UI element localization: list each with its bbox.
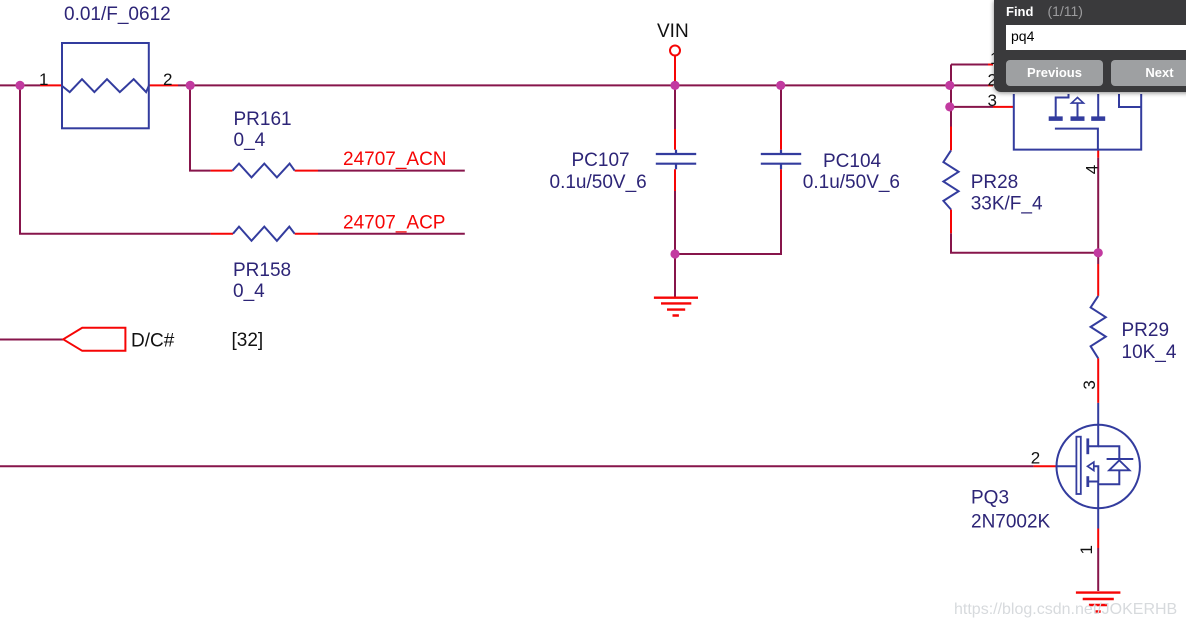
- svg-text:0_4: 0_4: [234, 130, 266, 151]
- resistor PR28: [943, 150, 958, 209]
- wire D/C# stub: [0, 339, 63, 341]
- wire main top rail: [0, 85, 988, 233]
- junction at PC104 top: [776, 81, 785, 90]
- wire PQ3 source to ground: [1097, 548, 1099, 591]
- svg-text:3: 3: [988, 91, 997, 110]
- wire VIN cap branches: [675, 85, 781, 297]
- junction at VIN: [670, 81, 679, 90]
- wire top-right branches: [950, 65, 1098, 265]
- svg-text:PR158: PR158: [233, 260, 291, 281]
- svg-text:0.1u/50V_6: 0.1u/50V_6: [803, 172, 900, 193]
- svg-text:0.1u/50V_6: 0.1u/50V_6: [550, 172, 647, 193]
- svg-text:2N7002K: 2N7002K: [971, 512, 1051, 533]
- wire PQ4 pin stubs and PR28 pin stubs: [951, 65, 1014, 234]
- ground (PQ3): [1076, 593, 1121, 612]
- svg-text:4: 4: [1082, 165, 1101, 174]
- wire gate rail bottom: [0, 465, 1034, 467]
- port D/C#: [63, 328, 125, 351]
- svg-text:0_4: 0_4: [233, 281, 265, 302]
- svg-text:33K/F_4: 33K/F_4: [971, 194, 1043, 215]
- wire pin stubs of filter and PR161/PR158: [40, 85, 318, 233]
- power VIN: [670, 46, 680, 56]
- svg-text:PR161: PR161: [234, 109, 292, 130]
- svg-text:1: 1: [1077, 545, 1096, 554]
- find bar: [994, 0, 1186, 92]
- capacitor PC107: [656, 150, 696, 170]
- resistor box 0.01/F_0612: [62, 43, 149, 128]
- resistor PR29: [1091, 296, 1106, 358]
- junction at pin 2 of filter: [186, 81, 195, 90]
- wire VIN lead and capacitor pin stubs: [675, 56, 781, 192]
- junction at capacitor ground node: [670, 249, 679, 258]
- junction at PQ4 pin 2: [945, 81, 954, 90]
- svg-text:PR29: PR29: [1122, 320, 1170, 341]
- wire PQ4 pin 4 stub and PR29 pin stubs: [1097, 150, 1099, 403]
- ground (capacitors): [654, 298, 698, 316]
- transistor PQ3 2N7002K: [1057, 403, 1140, 529]
- svg-text:2: 2: [1031, 449, 1040, 468]
- svg-text:24707_ACN: 24707_ACN: [343, 149, 447, 170]
- svg-text:[32]: [32]: [232, 330, 264, 351]
- svg-text:24707_ACP: 24707_ACP: [343, 213, 445, 234]
- junction at PQ4 pin 3: [945, 102, 954, 111]
- transistor PQ4 (partially hidden by find bar): [1014, 94, 1141, 150]
- svg-text:1: 1: [39, 70, 48, 89]
- svg-text:3: 3: [1080, 380, 1099, 389]
- resistor PR158: [233, 227, 295, 241]
- junction at PR28/PR29 node: [1094, 248, 1103, 257]
- svg-text:D/C#: D/C#: [131, 331, 175, 352]
- watermark: [954, 601, 1177, 619]
- svg-text:PC107: PC107: [572, 150, 630, 171]
- junction at pin 1 of filter: [15, 81, 24, 90]
- resistor PR161: [233, 164, 295, 178]
- svg-text:10K_4: 10K_4: [1122, 342, 1177, 363]
- capacitor PC104: [761, 150, 801, 170]
- svg-text:2: 2: [163, 70, 172, 89]
- svg-text:PC104: PC104: [823, 151, 882, 172]
- svg-text:VIN: VIN: [657, 21, 689, 42]
- wire PQ3 gate and source stubs: [1034, 466, 1099, 548]
- svg-text:PQ3: PQ3: [971, 488, 1009, 509]
- svg-text:PR28: PR28: [971, 172, 1019, 193]
- svg-text:0.01/F_0612: 0.01/F_0612: [64, 4, 171, 25]
